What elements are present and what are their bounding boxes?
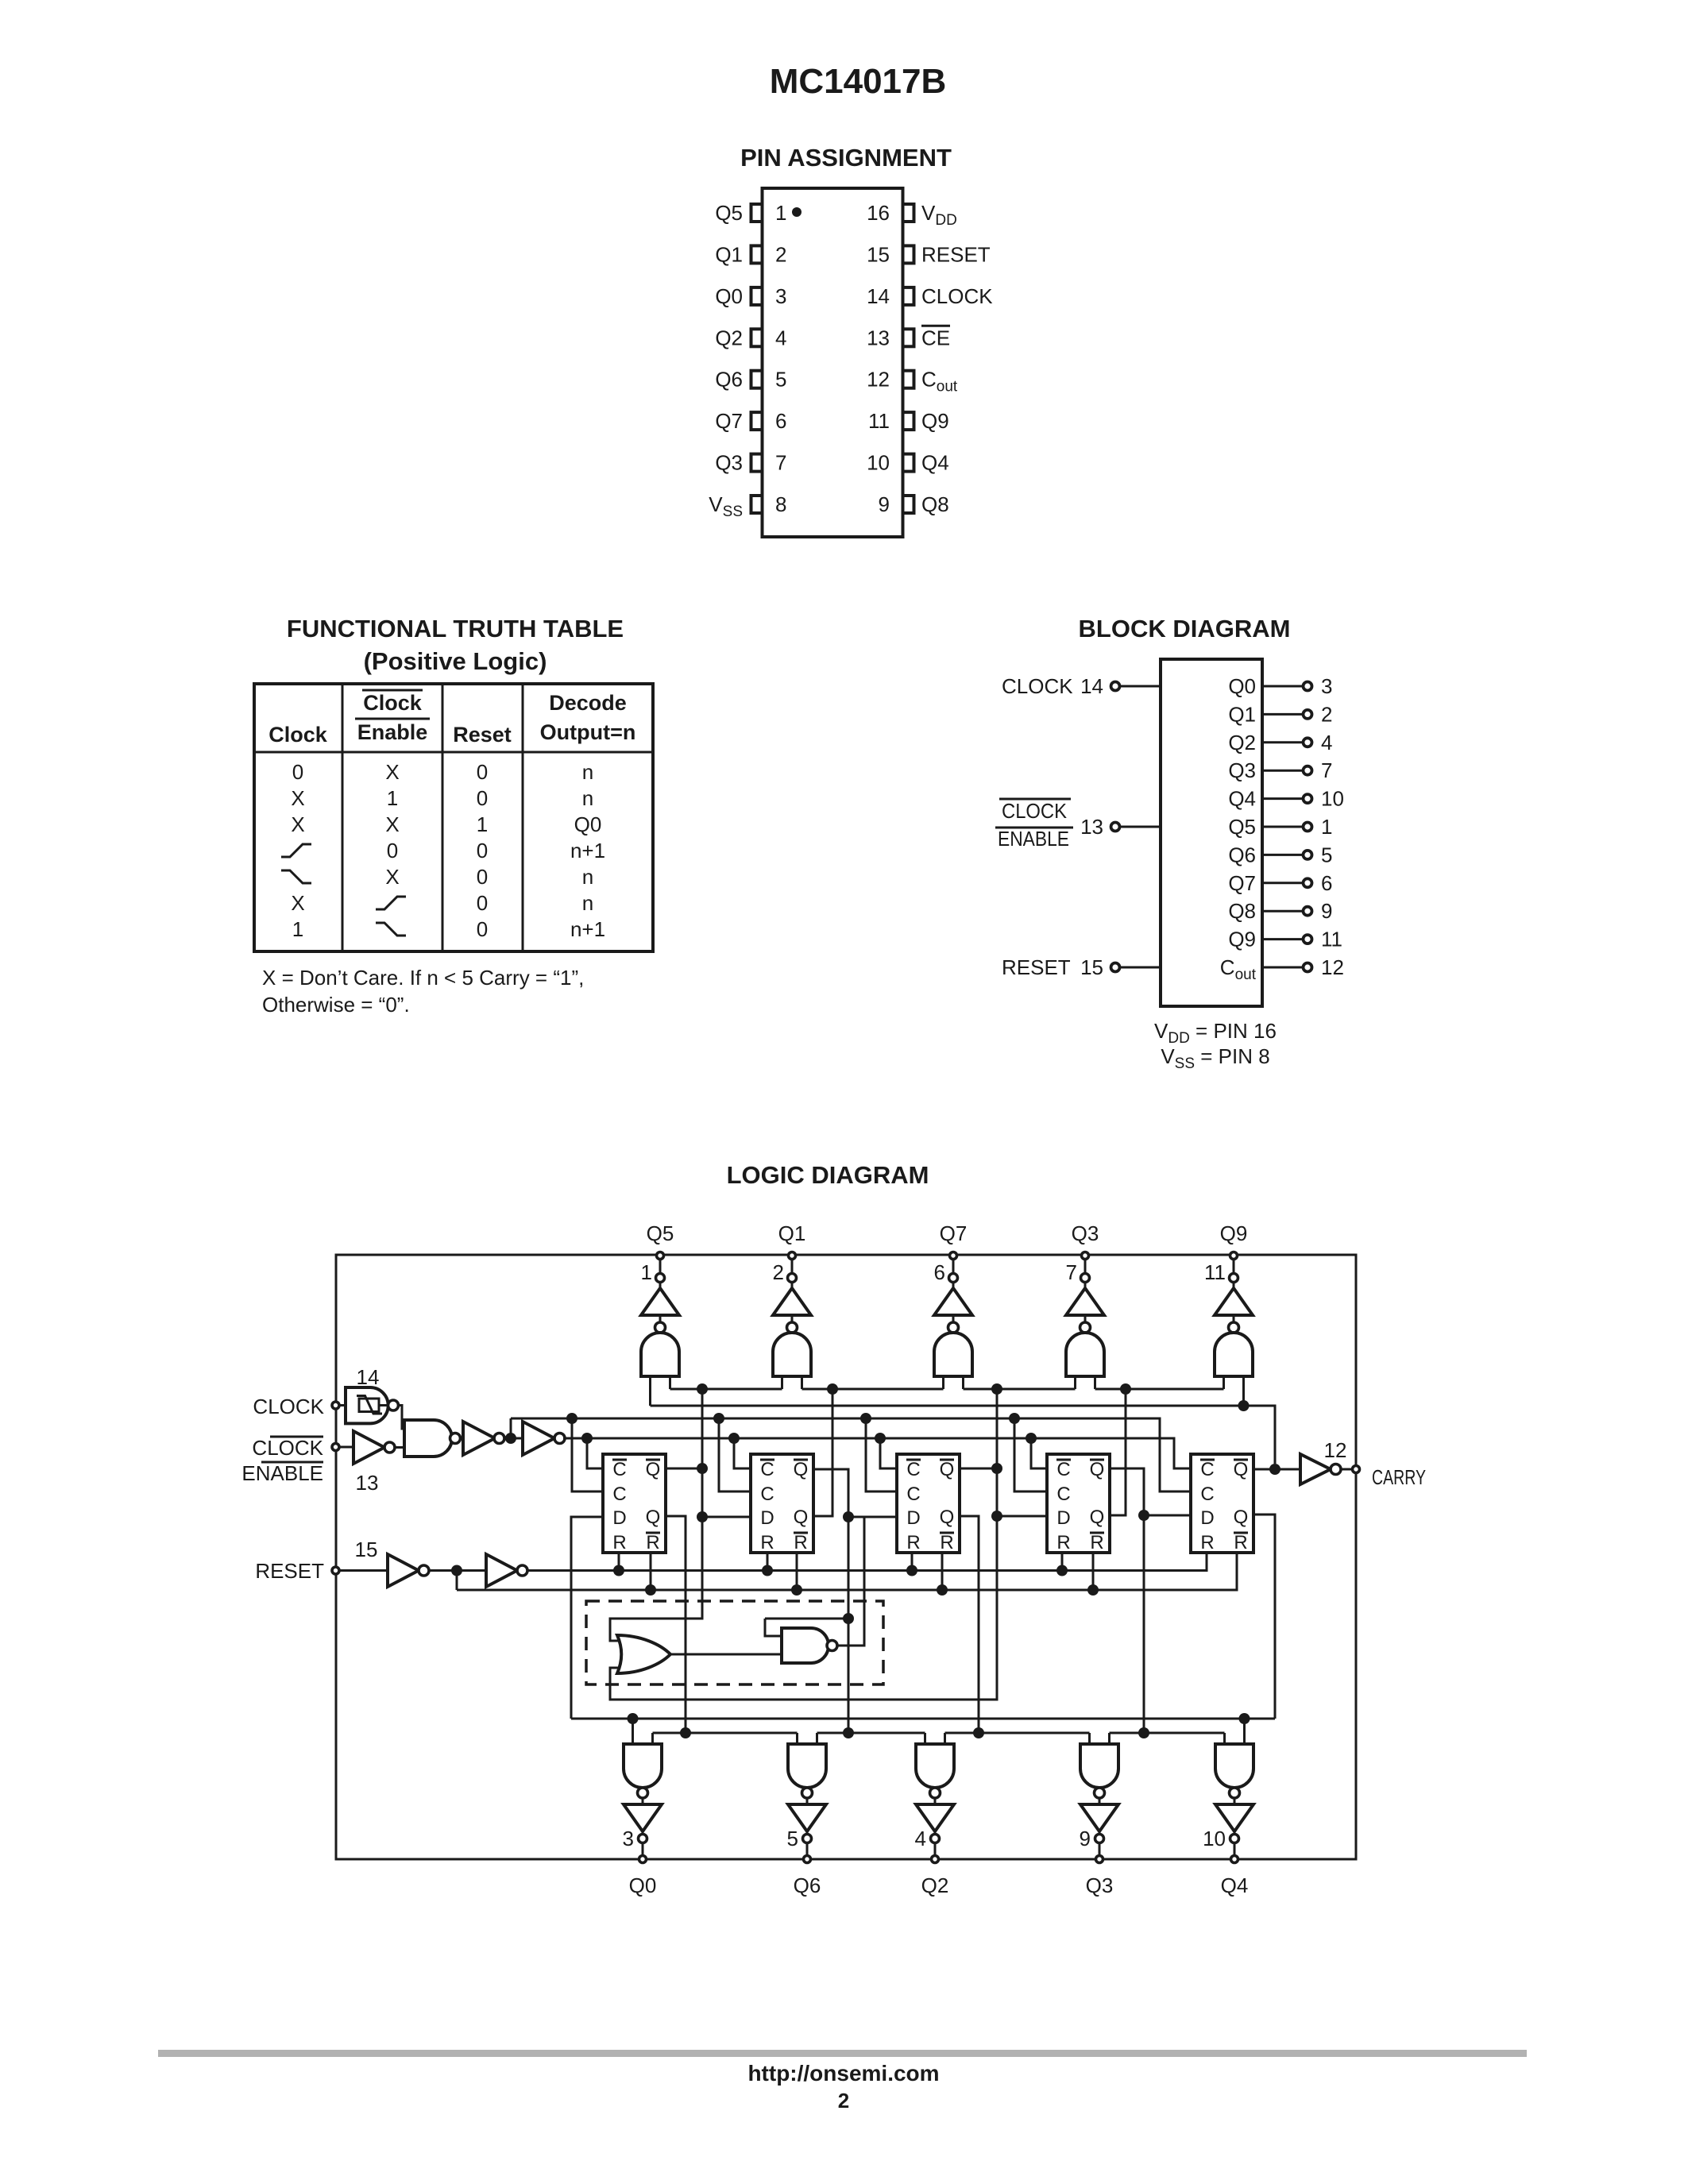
svg-text:1: 1 — [1321, 815, 1332, 839]
inverter buffer driving Q3 — [1066, 1283, 1104, 1324]
NAND gate in feedback network — [670, 1619, 837, 1663]
block output Cout pin 12 — [1220, 955, 1344, 983]
svg-text:Q3: Q3 — [1086, 1873, 1114, 1897]
wire FF1 Qbar net (up to Q5/Q1 gates, down to FF2 D and OR gate) — [610, 1389, 751, 1641]
svg-text:n: n — [582, 786, 593, 810]
svg-text:0: 0 — [477, 760, 488, 784]
svg-text:Q: Q — [940, 1459, 955, 1480]
inverter buffer driving Q4 — [1215, 1798, 1253, 1835]
truth table note — [262, 966, 584, 1017]
decode NAND gate for Q7 — [934, 1322, 972, 1376]
svg-text:9: 9 — [1080, 1827, 1091, 1850]
pin 4 stub (Q2) — [751, 329, 763, 346]
svg-text:14: 14 — [1080, 674, 1103, 698]
truth table header Clock Enable (overlined) — [355, 690, 430, 744]
svg-text:9: 9 — [879, 492, 890, 516]
svg-text:0: 0 — [292, 760, 303, 784]
svg-text:LOGIC DIAGRAM: LOGIC DIAGRAM — [727, 1161, 929, 1189]
wire FF2 Qbar net (down to NAND input, FF3 D, bottom bus) — [813, 1469, 897, 1738]
wire FF3 Qbar net (up to Q7/Q3 gates, down to FF4 D and OR input bus B1) — [610, 1389, 1047, 1700]
wire Q7 gate input legs — [944, 1376, 964, 1389]
svg-text:Q5: Q5 — [1228, 815, 1256, 839]
svg-text:Q: Q — [794, 1507, 809, 1528]
truth table row 6 — [291, 891, 593, 915]
decode NAND gate for Q5 — [641, 1322, 679, 1376]
svg-text:D: D — [906, 1507, 920, 1529]
wire FF4 Q up to Q3/Q9 gate bus — [1110, 1389, 1126, 1515]
truth table row 5 — [281, 865, 593, 889]
svg-text:11: 11 — [1204, 1260, 1226, 1284]
svg-text:D: D — [1056, 1507, 1070, 1529]
node reset-bar branch junction — [451, 1565, 462, 1591]
truth table header Reset — [453, 723, 512, 747]
svg-text:R: R — [760, 1532, 774, 1553]
wire FF5 Q down to feedback bus B2 — [1253, 1515, 1275, 1719]
reset inverter 2 — [486, 1554, 527, 1587]
svg-text:7: 7 — [775, 451, 786, 475]
block output Q5 pin 1 — [1228, 815, 1332, 839]
svg-text:Q4: Q4 — [921, 451, 949, 475]
svg-text:PIN ASSIGNMENT: PIN ASSIGNMENT — [740, 144, 952, 172]
clock buffer inverter 2 — [523, 1422, 565, 1455]
pin 8 stub (VSS) — [751, 496, 763, 513]
svg-text:Q4: Q4 — [1228, 787, 1256, 811]
svg-text:CARRY: CARRY — [1372, 1465, 1426, 1489]
wire Q4 gate legs — [1225, 1719, 1245, 1744]
svg-text:1: 1 — [387, 786, 398, 810]
node Q1 (top output terminal, pin 2) — [773, 1221, 806, 1284]
pin 7 number — [775, 451, 786, 475]
wire FF1 R leg — [618, 1553, 620, 1571]
wire clock drop to FF1 C — [572, 1418, 603, 1491]
svg-text:6: 6 — [775, 409, 786, 433]
svg-text:3: 3 — [623, 1827, 634, 1850]
svg-text:1: 1 — [641, 1260, 652, 1284]
svg-text:Q2: Q2 — [1228, 731, 1256, 754]
pin 1 label Q5 — [715, 201, 743, 225]
reset inverter 1 — [388, 1554, 486, 1587]
svg-text:Q: Q — [1234, 1507, 1249, 1528]
wire FF2 R leg — [767, 1553, 769, 1571]
pin 10 stub (Q4) — [903, 454, 914, 472]
pin 15 label RESET — [921, 242, 991, 266]
svg-text:C: C — [1056, 1459, 1070, 1480]
truth table row 2 — [291, 786, 593, 810]
decode NAND gate for Q0 — [624, 1744, 662, 1798]
svg-text:R: R — [1200, 1532, 1214, 1553]
block output Q6 pin 5 — [1228, 843, 1332, 866]
pin 9 number — [879, 492, 890, 516]
pin 1 orientation dot — [792, 207, 802, 217]
inverter on CLOCK ENABLE — [353, 1431, 404, 1464]
svg-text:MC14017B: MC14017B — [770, 62, 947, 101]
flip-flop FF5 — [1191, 1454, 1253, 1553]
svg-text:Q0: Q0 — [1228, 674, 1256, 698]
flip-flop FF1 — [603, 1454, 666, 1553]
svg-text:RESET: RESET — [1002, 955, 1071, 979]
node Q9 (top output terminal, pin 11) — [1204, 1221, 1247, 1284]
svg-text:CLOCK: CLOCK — [253, 1395, 324, 1418]
node Q5 (top output terminal, pin 1) — [641, 1221, 674, 1284]
svg-text:Q7: Q7 — [715, 409, 743, 433]
svg-text:X: X — [291, 891, 304, 915]
truth table frame — [254, 684, 653, 951]
svg-text:Q0: Q0 — [629, 1873, 657, 1897]
svg-text:Q9: Q9 — [921, 409, 949, 433]
svg-text:R: R — [906, 1532, 920, 1553]
wire NAND top input from FF2 Qbar — [765, 1618, 848, 1620]
block input CLOCK pin 14 — [1002, 674, 1161, 698]
svg-text:D: D — [760, 1507, 774, 1529]
svg-text:CLOCK: CLOCK — [1002, 799, 1068, 823]
truth table row 1 — [292, 760, 593, 784]
svg-text:Q3: Q3 — [1072, 1221, 1099, 1245]
svg-text:Q: Q — [1090, 1507, 1105, 1528]
svg-text:R: R — [794, 1532, 807, 1553]
svg-text:1: 1 — [775, 201, 786, 225]
svg-text:3: 3 — [1321, 674, 1332, 698]
node CLOCK ENABLE input terminal (pin 13, active low) — [241, 1436, 378, 1495]
svg-text:0: 0 — [387, 839, 398, 862]
block output Q0 pin 3 — [1228, 674, 1332, 698]
svg-text:0: 0 — [477, 891, 488, 915]
svg-text:Q1: Q1 — [778, 1221, 806, 1245]
svg-text:9: 9 — [1321, 899, 1332, 923]
logic diagram outer border — [336, 1255, 1356, 1859]
svg-text:Q6: Q6 — [1228, 843, 1256, 866]
svg-text:Q1: Q1 — [715, 242, 743, 266]
OR gate in feedback network — [617, 1635, 670, 1673]
svg-text:3: 3 — [775, 284, 786, 308]
svg-text:16: 16 — [867, 201, 890, 225]
wire Q0 gate legs — [633, 1719, 653, 1744]
svg-text:C: C — [906, 1459, 920, 1480]
svg-text:Q2: Q2 — [921, 1873, 949, 1897]
node Q7 (top output terminal, pin 6) — [934, 1221, 968, 1284]
node Q6 (bottom output terminal, pin 5) — [787, 1827, 821, 1897]
svg-text:BLOCK DIAGRAM: BLOCK DIAGRAM — [1079, 615, 1291, 642]
node CARRY output terminal (pin 12) — [1324, 1438, 1426, 1489]
wire FF1 Rbar leg — [650, 1553, 652, 1590]
svg-text:7: 7 — [1066, 1260, 1077, 1284]
svg-text:Q2: Q2 — [715, 326, 743, 349]
wire FF2 Q up to Q1/Q7 gate bus — [813, 1389, 832, 1516]
svg-text:15: 15 — [355, 1538, 378, 1561]
svg-text:8: 8 — [775, 492, 786, 516]
svg-text:Q9: Q9 — [1220, 1221, 1248, 1245]
wire Q6 gate legs — [798, 1733, 817, 1744]
svg-text:Q0: Q0 — [574, 812, 602, 836]
wire FF4 Rbar leg — [1092, 1553, 1095, 1590]
wire bus FF4.Q segment (y1749) — [1095, 1383, 1224, 1395]
svg-text:Clock: Clock — [268, 723, 328, 747]
wire Q9 gate input legs — [1224, 1376, 1244, 1406]
block output Q9 pin 11 — [1228, 928, 1342, 951]
svg-text:Q: Q — [940, 1507, 955, 1528]
svg-text:5: 5 — [787, 1827, 798, 1850]
svg-text:Q4: Q4 — [1221, 1873, 1249, 1897]
svg-text:R: R — [940, 1532, 953, 1553]
truth table header Decode Output=n — [540, 691, 636, 744]
svg-text:13: 13 — [1080, 815, 1103, 839]
wire bottom bus segment FF1.Q (y2182) — [653, 1732, 798, 1734]
pin 11 label Q9 — [921, 409, 949, 433]
node Q4 (bottom output terminal, pin 10) — [1203, 1827, 1248, 1897]
wire bottom bus segment FF2.Qbar (y2182) — [817, 1732, 925, 1734]
pin 4 number — [775, 326, 786, 349]
svg-text:Q1: Q1 — [1228, 702, 1256, 726]
wire feedback bus B2 (FF5 Q, y2164) to FF1 D and bottom gates — [571, 1517, 1275, 1724]
wire reset bus R1 (y1977.5) to FF R pins — [527, 1553, 1207, 1576]
pin 14 label CLOCK — [921, 284, 993, 308]
node Q0 (bottom output terminal, pin 3) — [623, 1827, 657, 1897]
decode NAND gate for Q9 — [1215, 1322, 1253, 1376]
node CLOCK input terminal (pin 14) — [253, 1365, 379, 1418]
svg-text:13: 13 — [867, 326, 890, 349]
svg-text:C: C — [612, 1459, 626, 1480]
wire FF3 Rbar leg — [941, 1553, 944, 1590]
decode NAND gate for Q4 — [1215, 1744, 1253, 1798]
pin 5 label Q6 — [715, 368, 743, 392]
svg-text:D: D — [1200, 1507, 1214, 1529]
svg-text:Q6: Q6 — [715, 368, 743, 392]
svg-text:X: X — [385, 865, 399, 889]
svg-text:Q8: Q8 — [921, 492, 949, 516]
truth table row 4 — [281, 839, 605, 862]
wire bus FF3.Qbar segment (y1749) — [964, 1383, 1076, 1395]
svg-text:4: 4 — [775, 326, 786, 349]
svg-text:Decode: Decode — [549, 691, 627, 715]
IC package U1 MC14017B DIP-16 body — [763, 188, 903, 537]
svg-text:C: C — [1200, 1459, 1214, 1480]
pin 2 label Q1 — [715, 242, 743, 266]
node RESET input terminal (pin 15) — [255, 1538, 388, 1583]
svg-text:Clock: Clock — [363, 691, 423, 715]
wire bus FF2.Q segment (y1749) — [802, 1383, 944, 1395]
svg-text:Q3: Q3 — [1228, 758, 1256, 782]
svg-text:5: 5 — [775, 368, 786, 392]
svg-text:12: 12 — [1321, 955, 1344, 979]
svg-text:X: X — [385, 812, 399, 836]
pin 12 label Cout — [921, 368, 958, 396]
pin 7 stub (Q3) — [751, 454, 763, 472]
block output Q3 pin 7 — [1228, 758, 1332, 782]
pin 15 stub (RESET) — [903, 245, 914, 263]
svg-text:http://onsemi.com: http://onsemi.com — [747, 2061, 939, 2086]
block input RESET pin 15 — [1002, 955, 1161, 979]
wire Q5 gate right input leg to L1 bus — [669, 1376, 671, 1389]
wire clock-bar drop to FF1 Cbar — [587, 1438, 603, 1468]
pin 2 number — [775, 242, 786, 266]
pin 3 number — [775, 284, 786, 308]
svg-text:Q5: Q5 — [715, 201, 743, 225]
svg-text:Q0: Q0 — [715, 284, 743, 308]
truth table header Clock — [268, 723, 328, 747]
wire FF3 Q down to bottom decode bus — [959, 1516, 984, 1738]
svg-text:CLOCK: CLOCK — [1002, 674, 1073, 698]
wire bottom bus segment FF3.Q (y2182) — [945, 1732, 1090, 1734]
inverter buffer driving Q5 — [641, 1283, 679, 1324]
clock buffer inverter 1 — [463, 1422, 523, 1455]
svg-text:n+1: n+1 — [570, 917, 605, 941]
pin 5 stub (Q6) — [751, 371, 763, 388]
pin 10 number — [867, 451, 890, 475]
svg-text:13: 13 — [356, 1471, 379, 1495]
block output Q2 pin 4 — [1228, 731, 1332, 754]
svg-text:Q: Q — [1090, 1459, 1105, 1480]
block output Q4 pin 10 — [1228, 787, 1344, 811]
svg-text:CLOCK: CLOCK — [921, 284, 993, 308]
svg-text:10: 10 — [1321, 787, 1344, 811]
decode NAND gate for Q6 — [788, 1744, 826, 1798]
pin 8 number — [775, 492, 786, 516]
Schmitt trigger buffer on CLOCK — [346, 1387, 404, 1429]
svg-text:Reset: Reset — [453, 723, 512, 747]
svg-text:0: 0 — [477, 917, 488, 941]
svg-text:Q8: Q8 — [1228, 899, 1256, 923]
svg-text:CLOCK: CLOCK — [252, 1436, 323, 1460]
inverter buffer driving Q7 — [934, 1283, 972, 1324]
svg-text:X = Don’t Care. If n < 5 Carry: X = Don’t Care. If n < 5 Carry = “1”, — [262, 966, 584, 990]
pin 4 label Q2 — [715, 326, 743, 349]
svg-text:10: 10 — [867, 451, 890, 475]
wire clock-bar line L4 (y1811) to FF Cbar inputs — [563, 1433, 1191, 1468]
pin 12 stub (Cout) — [903, 371, 914, 388]
wire clock drop to FF3 C — [866, 1418, 897, 1491]
svg-text:Otherwise = “0”.: Otherwise = “0”. — [262, 993, 410, 1017]
node Q2 (bottom output terminal, pin 4) — [915, 1827, 949, 1897]
footer rule — [158, 2050, 1527, 2057]
svg-text:11: 11 — [868, 409, 890, 433]
svg-text:C: C — [1056, 1484, 1070, 1505]
pin 1 stub (Q5) — [751, 204, 763, 222]
wire Q3 gate legs — [1090, 1733, 1110, 1744]
svg-text:Q: Q — [794, 1459, 809, 1480]
wire clock-bar drop to FF4 Cbar — [1031, 1438, 1047, 1468]
pin 10 label Q4 — [921, 451, 949, 475]
node clock-bar branch junction — [505, 1418, 516, 1444]
svg-text:7: 7 — [1321, 758, 1332, 782]
wire Q1 gate input legs — [782, 1376, 802, 1389]
flip-flop FF4 — [1047, 1454, 1110, 1553]
wire clock-bar drop to FF3 Cbar — [880, 1438, 897, 1468]
pin 6 stub (Q7) — [751, 412, 763, 430]
svg-text:15: 15 — [1080, 955, 1103, 979]
svg-text:4: 4 — [1321, 731, 1332, 754]
pin 6 label Q7 — [715, 409, 743, 433]
wire FF5 Qbar to carry inverter and L2 bus — [1253, 1464, 1300, 1475]
svg-text:Q3: Q3 — [715, 451, 743, 475]
svg-text:2: 2 — [1321, 702, 1332, 726]
svg-text:CE: CE — [921, 326, 950, 349]
svg-text:R: R — [646, 1532, 659, 1553]
svg-text:Q7: Q7 — [1228, 871, 1256, 895]
svg-text:6: 6 — [934, 1260, 945, 1284]
svg-text:n+1: n+1 — [570, 839, 605, 862]
pin 9 stub (Q8) — [903, 496, 914, 513]
svg-text:2: 2 — [775, 242, 786, 266]
svg-text:0: 0 — [477, 865, 488, 889]
footer url — [747, 2061, 939, 2086]
pin 14 number — [867, 284, 890, 308]
pin 3 label Q0 — [715, 284, 743, 308]
block input CLOCK ENABLE pin 13 (active low) — [995, 799, 1161, 851]
svg-text:14: 14 — [867, 284, 890, 308]
svg-text:1: 1 — [477, 812, 488, 836]
svg-text:11: 11 — [1321, 928, 1342, 951]
svg-text:5: 5 — [1321, 843, 1332, 866]
svg-text:RESET: RESET — [921, 242, 991, 266]
pin 13 label CE (active low) — [921, 326, 950, 349]
decode NAND gate for Q1 — [773, 1322, 811, 1376]
svg-text:n: n — [582, 891, 593, 915]
svg-text:FUNCTIONAL TRUTH TABLE: FUNCTIONAL TRUTH TABLE — [287, 615, 624, 642]
svg-text:D: D — [612, 1507, 626, 1529]
inverter buffer driving Q6 — [788, 1798, 826, 1835]
svg-text:Q6: Q6 — [794, 1873, 821, 1897]
svg-text:Q9: Q9 — [1228, 928, 1256, 951]
wire clock-bar drop to FF2 Cbar — [734, 1438, 751, 1468]
wire reset-bar bus R2 (y2002) to FF Rbar pins — [457, 1553, 1237, 1596]
wire bus FF1.Qbar segment (y1749) — [670, 1383, 782, 1395]
svg-text:2: 2 — [838, 2089, 849, 2113]
NAND gate clock / clock-enable — [404, 1420, 463, 1457]
pin 2 stub (Q1) — [751, 245, 763, 263]
pin 1 number — [775, 201, 786, 225]
svg-text:Q: Q — [1234, 1459, 1249, 1480]
wire Q2 gate legs — [925, 1733, 945, 1744]
svg-text:12: 12 — [867, 368, 890, 392]
svg-text:Enable: Enable — [357, 720, 428, 744]
svg-text:Q7: Q7 — [940, 1221, 968, 1245]
svg-text:C: C — [1200, 1484, 1214, 1505]
wire clock line L3 (y1786) to FF C inputs — [511, 1413, 1191, 1491]
block output Q7 pin 6 — [1228, 871, 1332, 895]
decode NAND gate for Q3 — [1066, 1322, 1104, 1376]
pin 16 label VDD — [921, 201, 957, 229]
block output Q8 pin 9 — [1228, 899, 1332, 923]
wire bottom bus segment FF4.Qbar (y2182) — [1110, 1732, 1225, 1734]
wire NAND output up to FF3 D — [837, 1517, 897, 1646]
block diagram counter block — [1161, 659, 1262, 1006]
pin 3 stub (Q0) — [751, 287, 763, 305]
svg-text:0: 0 — [477, 786, 488, 810]
inverter buffer driving Q3 — [1080, 1798, 1118, 1835]
pin 12 number — [867, 368, 890, 392]
pin 11 number — [868, 409, 890, 433]
pin 6 number — [775, 409, 786, 433]
wire Q3 gate input legs — [1076, 1376, 1095, 1389]
pin 9 label Q8 — [921, 492, 949, 516]
svg-text:15: 15 — [867, 242, 890, 266]
svg-text:1: 1 — [292, 917, 303, 941]
svg-text:RESET: RESET — [255, 1559, 324, 1583]
inverter buffer driving Q9 — [1215, 1283, 1253, 1324]
svg-text:Output=n: Output=n — [540, 720, 636, 744]
note VSS = PIN 8 — [1161, 1044, 1269, 1072]
pin 7 label Q3 — [715, 451, 743, 475]
page number 2 — [838, 2089, 849, 2113]
truth table row 7 — [292, 917, 605, 941]
svg-text:R: R — [1056, 1532, 1070, 1553]
pin 13 stub (CE) — [903, 329, 914, 346]
svg-text:14: 14 — [357, 1365, 380, 1389]
svg-text:C: C — [612, 1484, 626, 1505]
svg-text:Q5: Q5 — [647, 1221, 674, 1245]
pin 11 stub (Q9) — [903, 412, 914, 430]
svg-text:12: 12 — [1324, 1438, 1347, 1462]
pin 5 number — [775, 368, 786, 392]
